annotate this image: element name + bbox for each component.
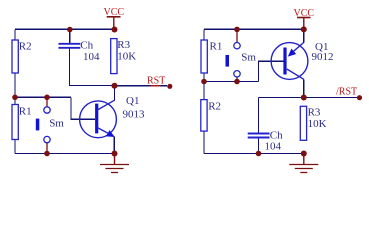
ground (right): [289, 154, 318, 173]
svg-text:Sm: Sm: [241, 52, 256, 64]
resistor R3 (right): [300, 106, 326, 140]
wire to base Q1: [71, 97, 95, 119]
junction dot (switch top node): [44, 95, 50, 101]
resistor R2 (right): [201, 100, 221, 132]
junction dot (left rail mid): [12, 95, 18, 101]
wire right left-rail upper: [203, 29, 205, 81]
junction dot (emitter / ground node): [112, 151, 118, 157]
ground (left): [100, 154, 129, 173]
body circle: [80, 101, 117, 138]
wire to base Q1 right: [259, 61, 285, 81]
actuator bar: [36, 119, 40, 131]
svg-text:Ch: Ch: [80, 40, 93, 52]
junction dot (R1 bottom node): [201, 79, 207, 85]
pin bottom: [236, 77, 238, 81]
svg-text:10K: 10K: [308, 118, 327, 130]
terminal circle top: [234, 43, 240, 49]
wire cap bottom to RST node: [70, 48, 115, 85]
wire cap top to /RST node: [259, 98, 304, 133]
terminal circle bottom: [44, 136, 50, 142]
junction dot (R3 / ground node): [301, 151, 307, 157]
svg-text:R1: R1: [19, 106, 32, 118]
wire cap top stub: [69, 29, 71, 43]
pin top: [46, 97, 48, 106]
wire left rail: [14, 29, 16, 153]
junction dot (/RST node): [301, 95, 307, 101]
pin top: [236, 29, 238, 42]
pin bottom: [46, 143, 48, 154]
collector pin wire: [303, 79, 305, 97]
wire top rail right: [204, 28, 304, 30]
junction dot (RST node): [112, 83, 118, 89]
terminal circle top: [44, 107, 50, 113]
body circle: [271, 43, 308, 80]
transistor Q1 9012 (PNP): [271, 29, 333, 97]
wire red segment on RST: [151, 85, 161, 87]
collector pin wire: [114, 86, 116, 101]
resistor R2: [12, 40, 32, 73]
svg-text:10K: 10K: [117, 50, 136, 62]
svg-text:9012: 9012: [312, 51, 334, 63]
wire right left-rail lower: [203, 82, 205, 154]
svg-text:Sm: Sm: [49, 118, 64, 130]
wire mid (base node right): [204, 81, 259, 83]
svg-text:/RST: /RST: [336, 87, 357, 98]
svg-text:RST: RST: [147, 76, 165, 87]
emitter arrowhead: [106, 130, 115, 137]
junction dot (cap bottom node): [256, 151, 262, 157]
wire /RST stub: [304, 97, 359, 99]
junction dot (cap / top rail): [67, 27, 73, 33]
emitter arrowhead into base: [288, 49, 296, 57]
wire cap bottom stub: [258, 138, 260, 154]
svg-text:R2: R2: [208, 101, 221, 113]
emitter pin wire: [303, 29, 305, 42]
svg-text:9013: 9013: [123, 109, 146, 121]
wire bottom rail right: [204, 153, 304, 155]
emitter diagonal (top): [290, 42, 304, 54]
base bar: [95, 104, 98, 134]
junction dot (VCC node right): [301, 26, 307, 32]
base bar: [283, 48, 286, 75]
junction dot (VCC node): [112, 27, 118, 33]
terminal dot /RST end: [357, 95, 362, 100]
collector diagonal (bottom): [287, 69, 304, 79]
svg-text:104: 104: [83, 51, 100, 63]
junction dot (switch bottom node): [44, 151, 50, 157]
resistor R3: [111, 39, 137, 74]
junction dot (switch bottom node): [234, 79, 240, 85]
switch Sm (right): [226, 29, 257, 81]
actuator bar: [226, 55, 230, 67]
resistor R1 (right): [201, 40, 222, 73]
svg-text:Q1: Q1: [126, 95, 139, 107]
svg-text:104: 104: [265, 141, 282, 153]
wire RST stub: [115, 85, 168, 87]
capacitor Ch (right): [248, 129, 283, 152]
wire mid (base node): [15, 96, 71, 98]
svg-text:R3: R3: [308, 107, 321, 119]
junction dot (switch top / rail): [234, 27, 240, 33]
power VCC (left): [104, 7, 125, 29]
transistor Q1 9013 (NPN): [80, 86, 145, 154]
resistor R1: [12, 105, 32, 140]
emitter diagonal: [97, 127, 113, 135]
svg-text:R2: R2: [19, 41, 32, 53]
power VCC (right): [294, 8, 315, 29]
svg-text:R1: R1: [210, 41, 223, 53]
switch Sm (left): [36, 97, 65, 153]
wire top rail left: [15, 28, 115, 30]
wire bottom rail left: [15, 153, 115, 155]
terminal circle bottom: [234, 71, 240, 77]
terminal dot RST end: [167, 84, 172, 89]
collector diagonal: [97, 100, 115, 110]
svg-text:Ch: Ch: [270, 129, 283, 141]
emitter pin wire: [113, 137, 115, 154]
svg-text:R3: R3: [117, 39, 130, 51]
capacitor Ch: [59, 40, 101, 63]
